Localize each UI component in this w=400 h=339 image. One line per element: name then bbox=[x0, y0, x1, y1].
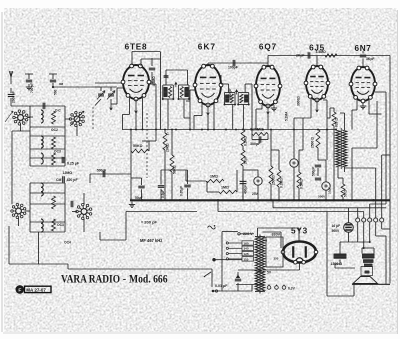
svg-text:OC3: OC3 bbox=[54, 150, 61, 154]
svg-text:1MΩ: 1MΩ bbox=[210, 175, 218, 179]
svg-text:CM: CM bbox=[56, 178, 62, 182]
svg-text:5.2MA: 5.2MA bbox=[285, 111, 289, 121]
svg-text:400pF: 400pF bbox=[244, 185, 248, 194]
svg-text:0.1MΩ: 0.1MΩ bbox=[244, 136, 248, 146]
svg-text:2000 pF: 2000 pF bbox=[12, 91, 16, 103]
svg-text:0.01 μF: 0.01 μF bbox=[215, 284, 228, 288]
svg-text:20KΩ: 20KΩ bbox=[166, 143, 170, 152]
svg-text:-: - bbox=[123, 274, 126, 285]
svg-text:420 pF: 420 pF bbox=[67, 178, 79, 182]
svg-text:100pF: 100pF bbox=[228, 66, 238, 70]
svg-text:50KΩ: 50KΩ bbox=[133, 144, 143, 148]
svg-text:125: 125 bbox=[243, 252, 248, 256]
svg-text:≈ 200 pF: ≈ 200 pF bbox=[141, 220, 158, 225]
svg-text:0.5MΩ: 0.5MΩ bbox=[152, 76, 156, 86]
svg-text:OC4: OC4 bbox=[64, 241, 71, 245]
svg-text:2500 Ω: 2500 Ω bbox=[311, 137, 315, 148]
svg-text:50 Ω: 50 Ω bbox=[344, 190, 348, 197]
svg-text:O C: O C bbox=[55, 109, 61, 113]
svg-text:500: 500 bbox=[54, 89, 58, 95]
svg-text:3000Ω: 3000Ω bbox=[297, 96, 301, 106]
svg-text:F: F bbox=[18, 288, 21, 294]
svg-text:110: 110 bbox=[243, 257, 248, 261]
svg-text:2500Ω: 2500Ω bbox=[272, 175, 276, 185]
svg-text:1MΩ: 1MΩ bbox=[221, 186, 229, 190]
svg-text:500V: 500V bbox=[318, 195, 326, 199]
svg-text:2KpF: 2KpF bbox=[296, 54, 304, 58]
svg-text:MF 467 kHz: MF 467 kHz bbox=[140, 238, 162, 243]
svg-text:0.1MΩ: 0.1MΩ bbox=[280, 178, 284, 188]
svg-text:2KpF: 2KpF bbox=[244, 156, 248, 164]
svg-text:3.5MΩ: 3.5MΩ bbox=[316, 50, 327, 54]
svg-text:700 pF: 700 pF bbox=[30, 83, 34, 93]
svg-text:16 μF: 16 μF bbox=[332, 224, 341, 228]
svg-text:0M: 0M bbox=[59, 82, 64, 86]
svg-text:140: 140 bbox=[243, 247, 248, 251]
svg-text:6TE8: 6TE8 bbox=[125, 43, 148, 52]
svg-text:VARA RADIO: VARA RADIO bbox=[61, 272, 120, 286]
svg-text:12MΩ: 12MΩ bbox=[63, 171, 73, 175]
svg-text:0.5MΩ: 0.5MΩ bbox=[300, 179, 304, 189]
svg-text:500pF: 500pF bbox=[97, 169, 106, 173]
svg-text:0.05μF: 0.05μF bbox=[180, 186, 184, 196]
svg-text:0.25 μF: 0.25 μF bbox=[67, 162, 80, 166]
svg-text:OC3: OC3 bbox=[57, 223, 64, 227]
svg-text:Mod. 666: Mod. 666 bbox=[129, 272, 168, 286]
svg-text:MA 27-07: MA 27-07 bbox=[26, 288, 46, 293]
svg-text:OC2: OC2 bbox=[51, 128, 58, 132]
svg-text:50KΩ: 50KΩ bbox=[173, 165, 177, 174]
svg-text:330V: 330V bbox=[272, 233, 281, 237]
svg-text:160: 160 bbox=[243, 241, 248, 245]
svg-text:6K7: 6K7 bbox=[198, 43, 217, 52]
svg-text:350: 350 bbox=[274, 257, 279, 261]
svg-text:3KpF: 3KpF bbox=[366, 57, 374, 61]
svg-text:10μF: 10μF bbox=[328, 187, 332, 194]
svg-text:500V: 500V bbox=[332, 229, 341, 233]
svg-text:6.3V: 6.3V bbox=[288, 287, 296, 291]
svg-text:820 Ω: 820 Ω bbox=[335, 118, 339, 127]
svg-text:500pF: 500pF bbox=[312, 167, 316, 176]
svg-text:6Q7: 6Q7 bbox=[259, 43, 277, 52]
